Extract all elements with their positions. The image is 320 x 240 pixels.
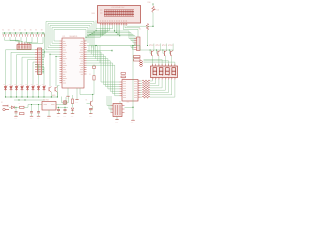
- wire SV1 to gnd net: [125, 106, 134, 108]
- IC2 left pins: [120, 82, 123, 96]
- wire IC2 pin to R8: [141, 92, 143, 94]
- wire LCD pin 1 to IC1: [85, 25, 100, 38]
- transistor T2: [149, 43, 154, 56]
- wire J2 lower pins: [131, 46, 134, 50]
- buzzer SP1: [89, 107, 93, 114]
- wire header SV3 pin 5 to LED5: [28, 60, 36, 85]
- resistor network RN1: [140, 61, 143, 67]
- svg-text:SV1: SV1: [127, 101, 130, 103]
- LCD pins: [101, 23, 128, 25]
- wire R6 to display: [150, 80, 162, 88]
- wire IC2 pin to R5: [141, 85, 143, 87]
- wire T4 base: [162, 49, 164, 53]
- LCD display DIS1: [92, 6, 141, 24]
- wire LED2 cathode: [10, 91, 11, 98]
- wire D1 to F1: [14, 107, 19, 108]
- svg-text:GND: GND: [14, 118, 17, 120]
- wire pot top: [152, 3, 153, 6]
- wire pot bottom: [152, 12, 154, 26]
- wire IC2 pin to R7: [141, 89, 143, 91]
- svg-text:BC547C: BC547C: [156, 45, 161, 47]
- wire LCD pin 2 to IC1: [87, 25, 102, 36]
- svg-text:GND: GND: [66, 98, 69, 100]
- wire LCD pin 10 tap: [116, 25, 117, 33]
- LED LED6: [31, 84, 35, 91]
- wire switch S3 to header SV2: [16, 33, 22, 43]
- resistor R19: [90, 74, 96, 80]
- wire IC1 to IC2 pin 5: [87, 61, 120, 91]
- ground under D2: [71, 114, 74, 118]
- wire IC2 bottom to SV1: [119, 101, 121, 104]
- resistor R11: [121, 73, 126, 75]
- svg-text:DIS1: DIS1: [92, 13, 96, 15]
- wire LCD pin 14 right: [123, 25, 138, 37]
- wire crystal leads: [62, 97, 69, 103]
- ground under C2: [30, 116, 33, 120]
- svg-text:S2: S2: [8, 29, 10, 31]
- transistor T1: [86, 100, 93, 107]
- wire LED3 cathode: [16, 91, 17, 98]
- wire IC5 gnd: [48, 110, 50, 116]
- resistor R18: [71, 95, 73, 107]
- wires to SV1: [107, 96, 111, 113]
- LED LED1: [3, 84, 7, 91]
- wire R3 to display: [150, 80, 153, 81]
- wire R19 down: [93, 80, 95, 95]
- svg-text:GND: GND: [37, 118, 40, 120]
- wire T1 base: [87, 102, 91, 104]
- svg-text:LED: LED: [14, 84, 16, 86]
- IC2 right pins: [138, 81, 141, 97]
- switch S9: [134, 56, 141, 58]
- wire R17 bottom: [147, 30, 148, 46]
- switch S6: [30, 29, 34, 36]
- net bus line 3 to header J2: [87, 34, 134, 43]
- wire T2 collector: [153, 44, 155, 51]
- wire switch S5 to header SV2: [24, 33, 26, 43]
- wire LCD pin 3 to IC1: [89, 25, 104, 35]
- switch S12: [20, 113, 25, 115]
- svg-text:S1: S1: [2, 29, 4, 31]
- switch S3: [13, 29, 17, 36]
- wire T3 collector: [159, 44, 161, 51]
- wire R8 to display: [150, 80, 169, 93]
- ground under C7: [63, 114, 66, 118]
- junction T6 net: [49, 54, 50, 55]
- wire header SV3 pin 1 to LED1: [6, 50, 36, 85]
- svg-text:S3: S3: [13, 29, 15, 31]
- fuse F1: [19, 103, 25, 109]
- net rail B: [87, 50, 113, 52]
- ground right: [131, 120, 135, 124]
- switch S2: [8, 29, 12, 36]
- wire SV1 bottom to ground: [116, 117, 118, 120]
- wire switch S6 to header SV2: [26, 33, 32, 43]
- wire T1 collector net: [80, 88, 93, 101]
- label GND at bus: [52, 95, 56, 97]
- wire segment to display pin 2: [144, 61, 169, 66]
- wire IC1 pin arc 2: [52, 28, 88, 44]
- wire transistor T6 emitter: [51, 92, 52, 97]
- resistor R6: [142, 87, 150, 89]
- wire IC1 left pin join: [44, 51, 60, 52]
- transistor T5: [168, 43, 173, 56]
- wire IC2 pin to R6: [141, 87, 143, 89]
- switch S1: [2, 29, 6, 36]
- wire IC2 pin to R4: [141, 82, 143, 84]
- wire IC1 pin to LED bus: [58, 86, 60, 98]
- net bus line 2 to header J2: [87, 33, 134, 41]
- net LED cathode bus: [6, 96, 58, 98]
- wire LED5 cathode: [27, 91, 28, 98]
- wire LCD pin 6 to IC1: [95, 25, 109, 31]
- wire LED6 cathode: [32, 91, 33, 98]
- wire LED8 cathode: [43, 91, 44, 98]
- wires rail droppers: [89, 46, 100, 63]
- svg-text:GND: GND: [131, 122, 134, 124]
- LED LED8: [42, 84, 46, 91]
- wire LCD pin 15 right: [125, 25, 140, 28]
- ISP header SV1: [113, 101, 130, 116]
- wire T4 collector: [166, 44, 168, 51]
- wire R9 to display: [150, 80, 172, 95]
- svg-text:S4: S4: [19, 29, 21, 31]
- wire LCD pin 12 tap: [119, 25, 120, 36]
- wire switch S7 to header SV2: [28, 33, 38, 43]
- diode D3: [93, 65, 96, 76]
- svg-text:GND: GND: [47, 118, 50, 120]
- wire segment to display pin 1: [144, 60, 163, 67]
- svg-text:IC1: IC1: [63, 36, 66, 38]
- svg-text:SL1: SL1: [139, 29, 142, 31]
- wire IC1 gnd 2: [76, 88, 78, 100]
- net bottom bus: [14, 99, 45, 100]
- wire switch S1 to header SV2: [5, 33, 19, 43]
- junction switch S5: [26, 32, 27, 33]
- wire LCD pin 11 tap: [117, 25, 118, 35]
- ground under IC5: [47, 116, 50, 120]
- wire switch S2 to header SV2: [10, 33, 20, 43]
- wire T5 base: [169, 49, 171, 53]
- wire LCD pin 8 stub: [96, 25, 113, 28]
- wire T5 collector: [172, 44, 174, 51]
- LED LED4: [20, 84, 24, 91]
- wire R10 to display: [150, 80, 175, 97]
- LED LED2: [9, 84, 13, 91]
- resistor R3: [142, 80, 150, 82]
- wire IC1 to IC2 pin 6: [87, 63, 120, 94]
- wire R7 to display: [150, 80, 166, 90]
- ground under IC1 1: [66, 96, 69, 100]
- wire header SV3 pin 8 to LED8: [35, 67, 44, 85]
- wire IC2 pin to R9: [141, 94, 143, 96]
- wire rail to transistor row: [140, 46, 174, 51]
- svg-text:LED: LED: [3, 84, 5, 86]
- wire transistor T7 emitter: [57, 92, 58, 97]
- junction switch S4: [20, 32, 21, 33]
- 7-segment top pins: [153, 64, 175, 66]
- svg-text:GND: GND: [30, 118, 33, 120]
- transistor T4: [162, 43, 167, 56]
- wire IC2 pin to R10: [141, 96, 143, 98]
- LED LED5: [25, 84, 29, 91]
- wire LCD pin 9 tap: [114, 25, 115, 31]
- resistor R4: [142, 82, 150, 84]
- wire LCD pin 5 to IC1: [93, 25, 107, 32]
- ground under SV1: [115, 120, 118, 124]
- wire T2 emitter to display: [152, 56, 154, 66]
- wire header SV3 pin 7 to LED7: [35, 65, 39, 85]
- junction switch S8: [42, 32, 43, 33]
- svg-text:GND: GND: [75, 101, 78, 103]
- wire IC1 pin arc 4: [48, 24, 92, 48]
- svg-text:T1: T1: [86, 100, 88, 102]
- wire IC1 to IC2 pin 3: [87, 56, 120, 86]
- svg-text:LED: LED: [25, 84, 27, 86]
- wire T2 base: [150, 49, 152, 53]
- wire IC1 pin arc 3: [50, 26, 90, 46]
- IC1 right pins: [84, 41, 87, 74]
- wire segment to display pin 3: [144, 62, 175, 66]
- pin header SV2: [17, 43, 31, 50]
- microcontroller IC1: [62, 35, 84, 88]
- capacitor C6: [57, 107, 60, 113]
- resistor R17: [146, 24, 148, 31]
- diode D2: [71, 108, 73, 114]
- wire IC1 to IC2 pin 2: [87, 54, 120, 84]
- svg-text:BC547C: BC547C: [149, 45, 154, 47]
- wire IC5 output: [56, 97, 66, 105]
- voltage regulator IC5: [42, 100, 56, 110]
- ground under C3: [37, 116, 40, 120]
- wire header SV3 pin 3 to LED3: [17, 55, 36, 85]
- svg-text:LED: LED: [20, 84, 22, 86]
- switch S7: [35, 29, 39, 36]
- net header SV3 common: [42, 49, 43, 74]
- wire switch S4 to header SV2: [21, 33, 23, 43]
- capacitor C3: [37, 105, 40, 117]
- crystal Q1: [63, 101, 67, 105]
- capacitor C2: [30, 105, 33, 117]
- svg-text:R: R: [90, 74, 91, 76]
- resistor R8: [142, 91, 150, 93]
- LED LED7: [36, 84, 40, 91]
- svg-text:LED: LED: [9, 84, 11, 86]
- switch S8: [41, 29, 45, 36]
- wire T4 emitter to display: [164, 56, 166, 66]
- ground under IC1 2: [75, 100, 78, 104]
- wire IC1 gnd 1: [67, 88, 69, 96]
- svg-text:S8: S8: [41, 29, 43, 31]
- wire LCD pin 16 to pot: [127, 25, 154, 27]
- LED LED3: [14, 84, 18, 91]
- wire jack to D1: [9, 106, 11, 108]
- IC2 driver: [122, 77, 138, 101]
- wire R4 to display: [150, 80, 156, 84]
- wire header SV3 pin 4 to LED4: [22, 57, 35, 85]
- wire IC1 to IC2 pin 1: [87, 52, 120, 82]
- junction switch S3: [15, 32, 16, 33]
- junction switch S6: [31, 32, 32, 33]
- svg-text:X1: X1: [1, 102, 3, 104]
- svg-text:GND: GND: [71, 115, 74, 117]
- wire LCD pin 4 to IC1: [91, 25, 105, 34]
- switch S10: [134, 59, 141, 61]
- wire T3 emitter to display: [158, 56, 160, 66]
- capacitor C7: [64, 107, 67, 113]
- svg-text:GND: GND: [89, 115, 92, 117]
- svg-text:GND: GND: [63, 115, 66, 117]
- wire LED7 cathode: [38, 91, 39, 98]
- wire T5 emitter to display: [171, 56, 173, 66]
- wire LED4 cathode: [21, 91, 22, 98]
- net vertical x133: [132, 46, 133, 121]
- net bus left of IC1: [44, 33, 46, 58]
- wire T6 base to IC1: [50, 54, 60, 86]
- wire T3 base: [156, 49, 158, 53]
- wire IC1 to IC2 pin 7: [87, 65, 120, 96]
- resistor R12: [121, 76, 126, 78]
- 7-segment bottom pins: [153, 78, 177, 80]
- svg-text:LED: LED: [42, 84, 44, 86]
- pin header J2: [134, 29, 142, 51]
- SV1 pins: [111, 106, 125, 113]
- svg-text:10k: 10k: [157, 10, 160, 12]
- wire IC2 pin to R3: [141, 80, 143, 82]
- wire R5 to display: [150, 80, 159, 86]
- ground under SP1: [89, 114, 92, 118]
- svg-text:BC547C: BC547C: [162, 45, 167, 47]
- wire LED1 cathode: [5, 91, 6, 98]
- 7-segment display DIS2: [151, 66, 178, 78]
- wire T7 base to IC1: [56, 56, 60, 86]
- wire IC1 pin arc 5: [46, 22, 94, 50]
- svg-text:LED: LED: [36, 84, 38, 86]
- junction switch S1: [4, 32, 5, 33]
- junction T7 net: [55, 56, 56, 57]
- svg-text:S5: S5: [24, 29, 26, 31]
- potentiometer R16: [148, 2, 160, 12]
- net bus line 1 to header J2: [87, 31, 134, 39]
- DC jack X1: [1, 102, 9, 111]
- switch S4: [19, 29, 23, 36]
- net rail A: [87, 45, 140, 46]
- svg-text:LED: LED: [31, 84, 33, 86]
- wire switch S8 to header SV2: [29, 33, 43, 43]
- diode D1: [11, 106, 14, 109]
- svg-text:GND: GND: [57, 115, 60, 117]
- switch S5: [24, 29, 28, 36]
- svg-text:GND: GND: [115, 121, 118, 123]
- svg-text:R16: R16: [148, 2, 151, 4]
- svg-text:S7: S7: [35, 29, 37, 31]
- capacitor C1: [15, 107, 18, 116]
- IC1 left pins: [60, 41, 63, 83]
- net bus line 4 to header J2: [87, 36, 135, 45]
- ground under C6: [57, 114, 60, 118]
- pin header SV3: [35, 48, 42, 75]
- net switch bus: [2, 32, 45, 34]
- wire IC1 to IC2 pin 4: [87, 59, 120, 89]
- wire header SV3 pin 6 to LED6: [33, 62, 35, 85]
- wire IC1 pin arc 1: [54, 30, 86, 42]
- wire F1 to IC5: [24, 104, 42, 107]
- resistor R9: [142, 94, 150, 96]
- resistor R5: [142, 85, 150, 87]
- resistor R10: [142, 96, 150, 98]
- transistor T3: [156, 43, 161, 56]
- net crystal gnd: [57, 107, 69, 108]
- junction switch S2: [9, 32, 10, 33]
- svg-text:BC547C: BC547C: [168, 45, 173, 47]
- transistor T7: [55, 87, 57, 93]
- resistor R7: [142, 89, 150, 91]
- wire LCD left vertical: [95, 21, 97, 31]
- transistor T6: [49, 87, 51, 93]
- wire header SV3 pin 2 to LED2: [11, 52, 35, 85]
- ground under C1: [14, 116, 17, 120]
- junction switch S7: [37, 32, 38, 33]
- svg-text:S6: S6: [30, 29, 32, 31]
